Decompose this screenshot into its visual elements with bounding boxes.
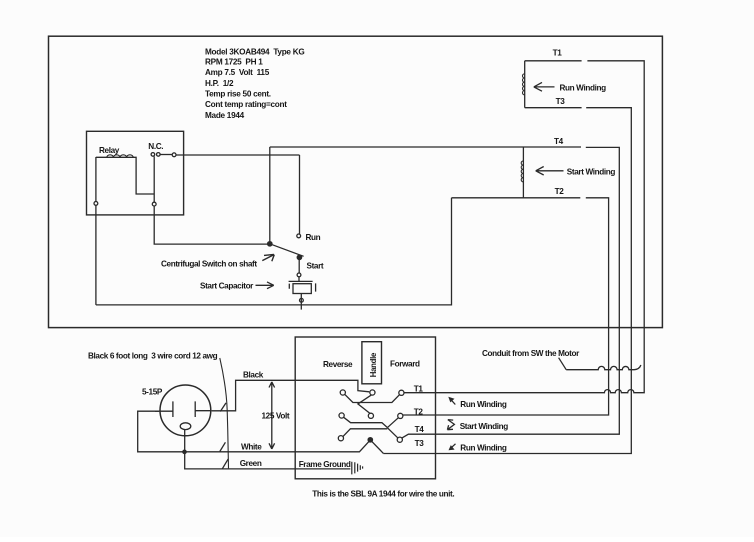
frame ground symbol xyxy=(352,462,363,475)
plug ground pin xyxy=(180,423,191,430)
wire junction to T3 contact xyxy=(387,428,398,439)
run winding coil xyxy=(524,61,526,108)
wire relay right terminal to centrifugal junction xyxy=(154,206,268,244)
svg-text:N.C.: N.C. xyxy=(148,142,163,151)
svg-text:T2: T2 xyxy=(555,187,565,196)
wire A to T1 contact xyxy=(345,394,400,402)
wire D to junction xyxy=(344,417,388,427)
svg-text:125 Volt: 125 Volt xyxy=(262,412,290,421)
svg-text:Start Winding: Start Winding xyxy=(567,167,616,176)
svg-text:Conduit from SW the Motor: Conduit from SW the Motor xyxy=(482,349,580,358)
wire T4 line drop to centrifugal junction xyxy=(269,147,271,242)
relay left terminal xyxy=(94,202,98,206)
switch terminal T3 contact xyxy=(397,437,402,442)
svg-text:Handle: Handle xyxy=(369,352,378,377)
svg-text:5-15P: 5-15P xyxy=(142,388,163,397)
Run contact circle xyxy=(297,234,301,238)
wire B to E xyxy=(358,395,372,414)
centrifugal junction node xyxy=(268,242,272,246)
green-white crossing dot xyxy=(183,450,186,453)
switch terminal T1 contact xyxy=(399,390,404,395)
start node dot xyxy=(297,255,301,259)
T1 line with break and riser to switch T1 row xyxy=(404,61,644,393)
125 Volt double arrow xyxy=(269,382,275,449)
svg-text:Start Winding: Start Winding xyxy=(460,422,509,431)
svg-text:T4: T4 xyxy=(554,137,564,146)
run winding pointer arrow (T1) xyxy=(450,399,455,404)
relay armature vertical lead xyxy=(153,156,155,202)
capacitor bottom lead xyxy=(300,294,302,310)
svg-text:Centrifugal Switch on shaft: Centrifugal Switch on shaft xyxy=(161,259,257,268)
centrifugal switch pointer arrow xyxy=(262,254,274,261)
start capacitor C1 xyxy=(289,277,316,292)
svg-text:Black: Black xyxy=(243,370,264,379)
svg-text:T1: T1 xyxy=(553,48,563,57)
run winding arrow xyxy=(534,82,555,91)
wire relay left terminal down to bottom line xyxy=(95,205,97,305)
svg-text:White: White xyxy=(241,443,262,452)
svg-text:Run: Run xyxy=(306,233,321,242)
plug right prong xyxy=(195,401,212,417)
conduit pointer xyxy=(559,358,567,370)
svg-text:Start: Start xyxy=(307,262,324,271)
svg-text:Forward: Forward xyxy=(390,360,420,369)
svg-text:Run Winding: Run Winding xyxy=(460,400,507,409)
relay coil xyxy=(96,157,154,194)
switch contact G xyxy=(338,436,343,441)
plug 5-15P body xyxy=(160,385,211,436)
svg-text:H.P. 1/2: H.P. 1/2 xyxy=(205,79,234,88)
switch contact A xyxy=(340,390,345,395)
white wire from plug through box to lambda xyxy=(138,411,370,452)
svg-text:Temp rise 50 cent.: Temp rise 50 cent. xyxy=(205,90,271,99)
relay right terminal xyxy=(152,202,156,206)
svg-text:RPM 1725 PH 1: RPM 1725 PH 1 xyxy=(205,57,263,66)
bottom wire and riser to T2 line xyxy=(96,198,452,305)
motor nameplate spec text xyxy=(205,47,304,120)
wire junction to T2 contact xyxy=(387,418,398,428)
switch box (drum switch) xyxy=(295,337,435,479)
T2 line with break and riser to switch T2 row xyxy=(403,198,609,415)
cord slash on white wire xyxy=(220,442,226,451)
svg-text:Reverse: Reverse xyxy=(323,360,353,369)
svg-text:T3: T3 xyxy=(556,97,566,106)
N.C. contact circles xyxy=(151,153,155,157)
svg-text:Frame Ground: Frame Ground xyxy=(299,460,351,469)
svg-text:Start Capacitor: Start Capacitor xyxy=(200,282,254,291)
plug left prong xyxy=(155,401,173,417)
wire G to junction xyxy=(343,429,387,437)
start capacitor pointer arrow xyxy=(256,282,274,289)
svg-text:Run Winding: Run Winding xyxy=(460,443,507,452)
centrifugal switch arm xyxy=(270,244,304,256)
T4 line with break and riser to switch T4 row xyxy=(270,147,620,438)
outer enclosure box (motor) xyxy=(49,36,663,327)
wire between N.C. contacts xyxy=(160,154,172,156)
capacitor bottom terminal xyxy=(300,298,304,302)
switch contact D xyxy=(339,413,344,418)
Start contact circle xyxy=(297,273,301,277)
svg-text:Green: Green xyxy=(240,459,262,468)
lambda junction dot xyxy=(368,438,372,442)
svg-text:T2: T2 xyxy=(414,408,424,417)
wire Run contact drop xyxy=(299,155,301,234)
svg-text:Relay: Relay xyxy=(99,146,120,155)
start winding coil xyxy=(522,148,524,198)
T3 line with break and riser to switch T3 row xyxy=(383,108,631,454)
svg-text:T3: T3 xyxy=(415,439,425,448)
svg-text:Model 3KOAB494 Type KG: Model 3KOAB494 Type KG xyxy=(205,47,304,56)
conduit hatched line xyxy=(566,365,641,370)
svg-text:T1: T1 xyxy=(414,385,424,394)
relay coil left lead wire xyxy=(95,157,97,202)
wire lambda to T3 row xyxy=(371,440,384,453)
cord slash on green wire xyxy=(222,459,228,469)
switch contact B xyxy=(370,390,375,395)
switch terminal T2 contact xyxy=(398,413,403,418)
cord slash on black wire xyxy=(220,403,226,412)
wire start node to start contact xyxy=(298,260,300,273)
handle box xyxy=(362,342,382,384)
start winding pointer arrow xyxy=(447,420,454,430)
run winding pointer arrow (T3) xyxy=(451,444,455,448)
svg-text:Made 1944: Made 1944 xyxy=(205,111,245,120)
green wire from plug ground pin xyxy=(185,430,351,469)
black wire from plug to switch handle contact xyxy=(212,380,369,411)
cord curve xyxy=(220,358,229,468)
svg-text:Run Winding: Run Winding xyxy=(560,83,607,92)
svg-text:Black 6 foot long 3 wire cord: Black 6 foot long 3 wire cord 12 awg xyxy=(88,351,218,360)
start winding arrow xyxy=(536,167,564,176)
svg-text:Amp 7.5 Volt 115: Amp 7.5 Volt 115 xyxy=(205,68,270,77)
wire N.C. to Run drop corner xyxy=(176,154,300,156)
svg-text:Cont temp rating=cont: Cont temp rating=cont xyxy=(205,100,287,109)
svg-text:This is the SBL 9A 1944 for wi: This is the SBL 9A 1944 for wire the uni… xyxy=(312,490,454,499)
switch contact E xyxy=(368,413,373,418)
N.C. right contact circle xyxy=(172,153,176,157)
svg-text:T4: T4 xyxy=(415,425,425,434)
relay box xyxy=(87,131,184,215)
